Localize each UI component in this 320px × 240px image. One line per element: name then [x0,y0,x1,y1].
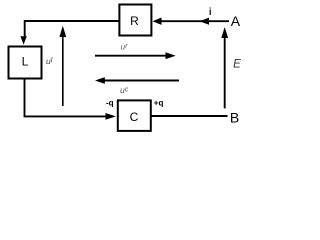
voltage arrow uC (points left) [95,77,179,84]
arrowhead into R right edge [153,18,162,25]
svg-text:+q: +q [154,98,164,107]
resistor R [119,5,151,36]
wire L bottom down and right to C (bottom-left) [25,79,107,117]
wire C to B (bottom-right) [151,115,228,117]
capacitor C [118,100,151,130]
svg-text:-q: -q [106,99,114,108]
svg-text:i: i [209,7,212,18]
svg-text:E: E [233,59,241,71]
svg-text:L: L [22,55,29,69]
current arrowhead into L top [20,36,26,44]
svg-text:B: B [230,109,239,125]
svg-text:R: R [130,14,139,28]
voltage arrow uR (points right) [95,52,176,59]
EMF arrow E (vertical, points up) [221,27,228,108]
svg-text:C: C [130,110,139,124]
inductor L [9,47,42,79]
svg-text:A: A [231,13,241,29]
wire A to R (top-right) [161,20,229,22]
current direction arrowhead i on top wire [200,18,210,25]
voltage arrow uL (up arrow right of L) [59,26,66,106]
wire R to corner and down to L (top-left) [25,21,119,38]
arrowhead into C left edge [106,113,117,120]
